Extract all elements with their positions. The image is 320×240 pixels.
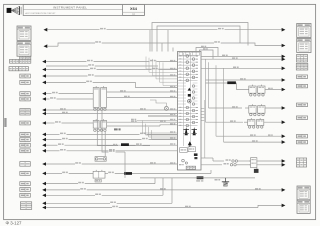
wire into P5 bbox=[209, 107, 243, 109]
cluster sub box left bbox=[180, 148, 188, 153]
staircase mid wires bbox=[143, 121, 178, 134]
right connector J/B box M bbox=[297, 200, 310, 213]
bracket join bbox=[237, 83, 249, 90]
hatched screw symbol bbox=[164, 106, 168, 110]
gauge symbol right bbox=[192, 127, 198, 135]
wire row 61.6 bbox=[42, 60, 46, 64]
page-edge connector mark bbox=[4, 118, 6, 127]
P1 drop wires bbox=[97, 111, 118, 146]
cluster top cell row bbox=[179, 52, 200, 55]
harness logo icon bbox=[7, 6, 22, 15]
top loop wires bbox=[152, 23, 248, 52]
wire row 120.5 labels bbox=[137, 120, 178, 122]
wire to box J bbox=[224, 141, 282, 143]
plug component P6 bbox=[248, 120, 255, 126]
left connector small box 11 bbox=[20, 182, 31, 186]
right connector box J bbox=[297, 140, 308, 144]
harness label black bbox=[227, 81, 236, 84]
P1 output wires bbox=[107, 91, 178, 93]
wire row 173.4 through S16 bbox=[42, 172, 46, 176]
plug component P5 bbox=[249, 106, 256, 114]
wire pair to plug P7 bbox=[213, 160, 224, 162]
right connector J/B box A bbox=[297, 24, 311, 38]
wire relay1 feed bbox=[44, 28, 48, 32]
cluster inner rails bbox=[182, 53, 184, 146]
wire to box I bbox=[216, 135, 282, 137]
wire to box E1 bbox=[206, 79, 282, 81]
wire P4 to box E2 bbox=[265, 89, 282, 91]
cluster mid glyph bar bbox=[188, 94, 191, 97]
cluster sub box right bbox=[188, 147, 195, 152]
wire rows 203.5/207.5 bbox=[42, 202, 46, 206]
wire row 145.2 bbox=[42, 143, 46, 147]
wire id labels left of cluster bbox=[170, 60, 173, 61]
wire pair to grid C bbox=[201, 55, 282, 57]
left staircase into cluster bbox=[146, 57, 178, 70]
left connector small box 10 bbox=[20, 172, 31, 176]
relay coil block dark bbox=[256, 168, 258, 169]
left connector small box 12 bbox=[20, 188, 31, 192]
wire row 195.3 bbox=[42, 194, 46, 198]
gauge symbol left bbox=[184, 127, 190, 135]
plug component P7 bbox=[251, 158, 257, 168]
wires P7 to grid K bbox=[257, 160, 282, 162]
left connector small box 8 bbox=[20, 143, 31, 147]
wire row 183.6 bbox=[42, 182, 46, 186]
right connector box E1 bbox=[297, 75, 308, 79]
right connector box F bbox=[297, 103, 308, 107]
svg-text:INSTRUMENT PANEL: INSTRUMENT PANEL bbox=[53, 5, 87, 9]
left connector small box 2 bbox=[20, 81, 31, 85]
connector box J/B fuse 1 bbox=[17, 26, 31, 40]
connector box J/B fuse 2 bbox=[17, 42, 31, 57]
left multi-cell connector row 1 bbox=[20, 56, 31, 59]
svg-text:X64: X64 bbox=[130, 6, 138, 11]
left connector small box 13 bbox=[20, 193, 31, 197]
wire bend at screw bbox=[150, 100, 166, 106]
right connector J/B box B bbox=[297, 39, 311, 53]
right grid connector K bbox=[296, 158, 306, 167]
wire relay2 feed bbox=[44, 44, 48, 48]
ground G1 bbox=[225, 178, 227, 182]
cluster mid glyph lamp bbox=[188, 99, 192, 103]
wire row 93.6 into plug P1 bbox=[42, 92, 46, 96]
sheet code X64 bbox=[123, 11, 145, 13]
harness label black 2 bbox=[121, 143, 129, 146]
wire rows 110/113.5 double bbox=[42, 108, 46, 112]
right connector box E2 bbox=[297, 84, 308, 88]
wire row 134.4 bbox=[42, 133, 46, 137]
left connector small box 3 bbox=[20, 92, 31, 96]
wire row 123 bbox=[42, 121, 46, 125]
wire row 164 (into box B) bbox=[42, 162, 46, 166]
cluster bottom label bbox=[197, 176, 204, 179]
wire P5 to box F bbox=[265, 107, 282, 109]
cluster pin number smudges bbox=[179, 55, 181, 56]
cluster bottom cells bbox=[186, 166, 195, 169]
wire row 69.5 bbox=[42, 68, 46, 72]
cluster bottom wire run bbox=[140, 177, 255, 179]
cluster top-right exits to grid C bbox=[196, 48, 218, 57]
right connector box G bbox=[297, 116, 308, 120]
right grid connector D bbox=[296, 63, 308, 70]
wire row 82.4 with bend bbox=[42, 81, 46, 85]
left connector tall box A bbox=[20, 109, 31, 115]
cluster mid glyph triangle bbox=[188, 88, 191, 91]
right grid connector C bbox=[297, 55, 308, 63]
cluster dark block bbox=[194, 153, 198, 156]
left connector small box 5 bbox=[20, 121, 31, 125]
right connector box I bbox=[297, 134, 308, 138]
left connector small box 9 bbox=[20, 149, 31, 153]
cluster pin rows mid bbox=[178, 82, 186, 84]
svg-text:ACC DISTRIBUTION CIRCUIT: ACC DISTRIBUTION CIRCUIT bbox=[25, 12, 56, 15]
left multi-cell connector row 2 bbox=[9, 67, 19, 71]
double wire pair bbox=[148, 115, 178, 117]
instrument cluster connector U1 outline bbox=[178, 52, 202, 171]
cluster splice circles bbox=[182, 159, 185, 162]
cluster pin number smudges right col bbox=[196, 56, 198, 57]
wire row 66.2 bbox=[46, 65, 88, 67]
right arrows into connectors bbox=[282, 28, 286, 32]
wire row 189.4 to box L bbox=[42, 188, 46, 192]
wire P6 to box G bbox=[264, 121, 282, 123]
wire row 99 into plug P1 bbox=[42, 97, 46, 101]
svg-text:Φ 3-127: Φ 3-127 bbox=[6, 220, 23, 225]
component S16 box bbox=[93, 171, 105, 178]
S16 label box bbox=[95, 179, 101, 182]
plug component P2 bbox=[93, 121, 99, 129]
plug row P3 bbox=[104, 132, 106, 156]
plug component P1 columns bbox=[93, 88, 99, 108]
wire row 150.8 bbox=[42, 149, 46, 153]
right connector J/B box L bbox=[297, 186, 310, 200]
left connector small box 7 bbox=[20, 138, 31, 142]
left connector small box 6 bbox=[20, 133, 31, 137]
wires cluster right lower bbox=[201, 157, 213, 159]
wire with harness label to plug P4 bbox=[206, 82, 237, 84]
P2 output wire bbox=[107, 121, 178, 123]
cluster right edge pin stubs bbox=[201, 108, 204, 110]
left connector tall box B bbox=[20, 162, 31, 167]
left connector small box 4 bbox=[20, 97, 31, 101]
wire row 76 bbox=[42, 74, 46, 78]
wire into P6 bbox=[206, 121, 244, 123]
cluster pin rows lower bbox=[178, 107, 198, 109]
cluster pin rows top bbox=[178, 55, 198, 57]
wire row 139.6 bbox=[42, 138, 46, 142]
cluster up arrow glyph bbox=[188, 141, 192, 145]
wire to grid D bbox=[201, 67, 282, 69]
left connector tall box C bbox=[20, 202, 31, 210]
vertical bus right of cluster bbox=[205, 59, 207, 122]
title block bbox=[23, 4, 144, 15]
plug component P4 bbox=[249, 86, 256, 93]
left connector small box 1 bbox=[20, 74, 31, 78]
